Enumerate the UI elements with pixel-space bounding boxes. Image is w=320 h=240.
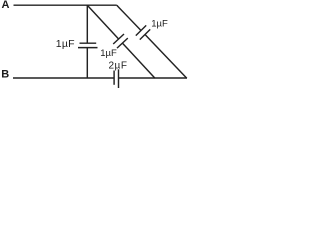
capacitor C4 2uF left plate xyxy=(113,71,115,85)
wire middle diagonal upper (node to capacitor C2) xyxy=(87,5,118,39)
capacitor C1 1uF bottom plate xyxy=(78,47,98,49)
wire right diagonal lower (C3 to bottom right node) xyxy=(145,35,187,79)
capacitor C2 1uF lower plate xyxy=(117,38,128,48)
wire from terminal B to capacitor C4 xyxy=(13,77,114,79)
wire from terminal A to top node xyxy=(14,4,88,6)
wire vertical branch lower (C1 to bottom wire) xyxy=(86,48,88,78)
svg-text:1µF: 1µF xyxy=(56,38,75,50)
capacitor C3 1uF upper plate xyxy=(136,25,146,35)
svg-text:A: A xyxy=(2,0,10,11)
capacitor C2 1uF upper plate xyxy=(113,34,124,44)
svg-text:2µF: 2µF xyxy=(109,61,128,72)
wire bottom right segment (C4 to bottom right node) xyxy=(119,77,188,79)
wire top segment to right diagonal xyxy=(87,4,117,6)
wire right diagonal upper (top wire bend to capacitor C3) xyxy=(117,5,141,30)
capacitor C4 2uF right plate xyxy=(118,69,120,88)
capacitor C1 1uF top plate xyxy=(80,42,97,44)
svg-text:1µF: 1µF xyxy=(151,18,168,29)
wire middle diagonal lower (C2 to bottom wire) xyxy=(122,43,155,78)
svg-text:1µF: 1µF xyxy=(100,48,117,59)
capacitor C3 1uF lower plate xyxy=(140,29,150,39)
svg-text:B: B xyxy=(1,69,9,81)
wire vertical branch upper (node to capacitor C1) xyxy=(86,5,88,44)
